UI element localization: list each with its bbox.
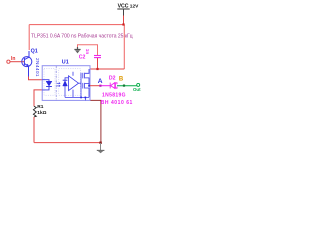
LED inside U1 (42, 80, 52, 90)
isolation barrier dash-dot (55, 66, 57, 100)
wire D2 to Out (117, 85, 137, 87)
svg-text:1N5819G: 1N5819G (102, 93, 126, 99)
capacitor C2 (78, 45, 102, 69)
photodiode (63, 78, 69, 98)
ground (C2) (74, 47, 80, 53)
svg-text:1kΩ: 1kΩ (37, 110, 46, 116)
svg-text:1n: 1n (85, 49, 90, 55)
svg-text:2N4401: 2N4401 (34, 58, 40, 77)
optocoupler U1 box (42, 66, 90, 101)
wire right VCC drop (123, 25, 125, 69)
wire VCC rail (29, 24, 124, 26)
junction C2 / Vcc pin (96, 68, 98, 70)
svg-text:R1: R1 (37, 104, 43, 110)
junction bottom rail / gnd (99, 142, 101, 144)
wire Q1 emitter to LED anode pin (29, 77, 43, 80)
Q1 emitter arrowhead (26, 64, 29, 67)
wire U1 output pin (90, 85, 101, 87)
svg-text:TLP351 0.6A 700 ns Рабочая час: TLP351 0.6A 700 ns Рабочая частота 25 кГ… (31, 34, 133, 40)
upper FET (82, 73, 84, 79)
lower FET (82, 83, 84, 89)
diode D2 (110, 83, 117, 89)
terminal In (7, 60, 10, 63)
dashed box around LED (44, 69, 55, 96)
wire bottom rail (34, 142, 101, 144)
ground (bottom) (97, 143, 105, 153)
light arrows (57, 82, 61, 87)
junction node B (123, 85, 125, 87)
wire U1 GND pin drop (90, 100, 101, 142)
svg-text:U1: U1 (62, 59, 69, 65)
amplifier triangle (69, 72, 79, 98)
svg-text:In: In (11, 56, 15, 62)
svg-text:Out: Out (133, 87, 141, 92)
transistor Q1 (22, 51, 32, 77)
VCC 12V label (117, 3, 139, 24)
output stage wires (65, 69, 90, 100)
junction VCC stem / rail (122, 23, 124, 25)
svg-text:ВН 4010 61: ВН 4010 61 (101, 100, 133, 106)
terminal Out (137, 83, 140, 86)
svg-text:12V: 12V (130, 3, 139, 9)
junction dots internal (80, 97, 82, 99)
dashed box around detector (59, 69, 81, 96)
svg-text:B: B (119, 77, 124, 83)
wire LED cathode pin to R1 (34, 90, 42, 106)
svg-text:A: A (98, 78, 103, 85)
svg-text:Q1: Q1 (31, 49, 38, 55)
internal gnd rail (65, 96, 89, 98)
wire In to base (10, 61, 24, 63)
svg-text:D2: D2 (109, 76, 116, 82)
junction node A (99, 85, 101, 87)
svg-text:C2: C2 (79, 55, 86, 61)
output pin tap (89, 85, 90, 87)
wire Q1 collector (28, 25, 30, 50)
wire U1 Vcc pin feed (90, 68, 124, 70)
wire R1 to bottom rail (33, 117, 35, 143)
resistor R1 (33, 106, 36, 117)
